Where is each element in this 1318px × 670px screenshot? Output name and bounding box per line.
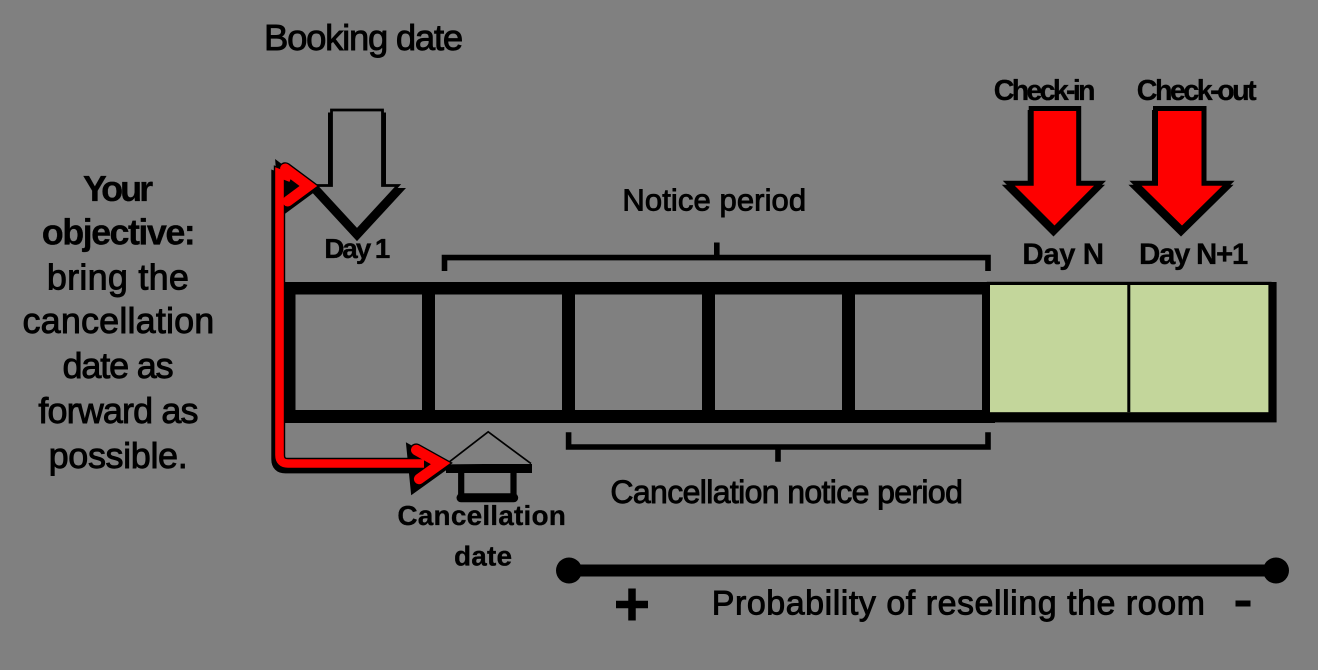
svg-text:Check-out: Check-out: [1137, 75, 1257, 107]
svg-text:date: date: [454, 541, 512, 572]
svg-text:Day N: Day N: [1022, 238, 1103, 271]
svg-text:forward as: forward as: [38, 390, 197, 431]
svg-text:Cancellation: Cancellation: [397, 500, 566, 531]
svg-text:possible.: possible.: [49, 435, 188, 476]
svg-text:cancellation: cancellation: [23, 300, 215, 341]
svg-text:Day 1: Day 1: [324, 233, 390, 264]
svg-text:objective:: objective:: [42, 212, 194, 253]
svg-text:Probability of reselling the r: Probability of reselling the room: [712, 585, 1206, 623]
svg-text:Your: Your: [83, 168, 153, 209]
svg-text:Notice period: Notice period: [622, 183, 806, 218]
svg-text:Cancellation notice period: Cancellation notice period: [610, 474, 962, 510]
svg-text:date as: date as: [63, 345, 173, 386]
svg-text:Check-in: Check-in: [994, 75, 1094, 107]
svg-text:bring the: bring the: [47, 257, 189, 298]
svg-text:Booking date: Booking date: [264, 17, 462, 58]
svg-text:Day N+1: Day N+1: [1139, 238, 1248, 271]
